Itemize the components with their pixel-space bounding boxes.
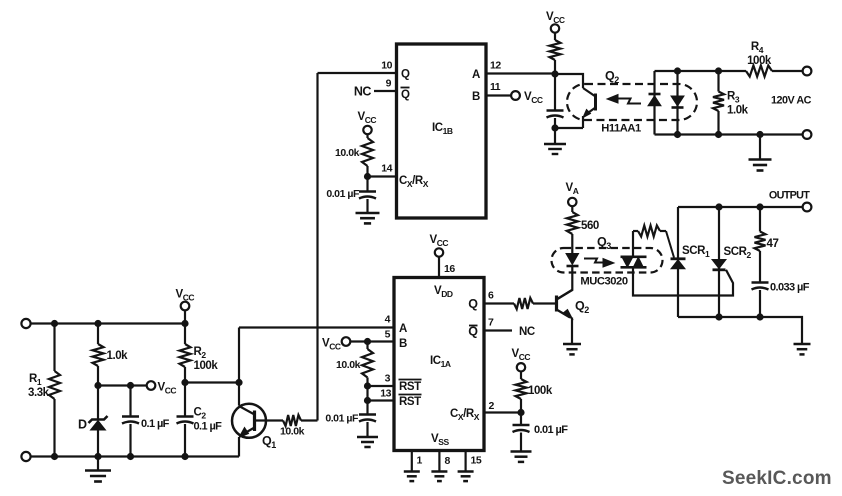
svg-text:RST: RST <box>399 396 421 408</box>
SCR2 <box>712 207 751 317</box>
VA terminal <box>566 182 579 206</box>
watermark SeekIC.com <box>722 468 832 489</box>
label MUC3020 <box>580 276 627 288</box>
capacitor C2 0.1 uF <box>177 383 223 457</box>
IC U1 IC1B monostable body <box>397 44 487 218</box>
svg-text:Q: Q <box>401 89 410 101</box>
svg-text:0.1 µF: 0.1 µF <box>141 418 170 430</box>
svg-text:0.01 µF: 0.01 µF <box>326 188 360 200</box>
node 47 top <box>756 203 763 210</box>
capacitor 0.033 uF <box>752 282 810 318</box>
IC1A pin 4 A wire from Q1 collector <box>239 314 394 328</box>
ground (phototransistor emitter) <box>544 128 566 154</box>
opto Q2 H11AA1 phototransistor <box>583 88 596 128</box>
label 120V AC <box>771 95 812 107</box>
triac (MUC3020 detector) <box>621 252 647 272</box>
ground (IC1B timing cap) <box>356 213 380 223</box>
IC1A pin 6 wire <box>484 290 514 304</box>
resistor 10.0k (RST pull-up) <box>336 342 373 387</box>
wire IC1B pin10 down to Q1 base resistor <box>316 73 318 421</box>
svg-text:VSS: VSS <box>431 433 449 447</box>
IC U2 IC1A monostable body <box>394 278 484 451</box>
svg-text:12: 12 <box>490 60 501 72</box>
svg-text:IC1A: IC1A <box>430 355 451 369</box>
svg-text:3: 3 <box>385 373 391 385</box>
node LED2 bottom <box>674 131 681 138</box>
svg-text:0.01 µF: 0.01 µF <box>325 413 359 425</box>
zener diode D <box>78 386 108 457</box>
svg-text:100k: 100k <box>747 55 772 67</box>
ground (Q2 emitter) <box>563 344 581 354</box>
ground (RST cap) <box>357 437 378 447</box>
Vcc terminal IC1A pin 16 <box>430 234 456 278</box>
resistor 1.0k <box>93 324 129 386</box>
node R3 top <box>715 67 722 74</box>
wire triac top to gate resistor <box>632 231 634 257</box>
node R2 top <box>181 320 188 327</box>
IC1A pin 5 B wire <box>350 329 394 342</box>
capacitor (across phototransistor) <box>547 74 564 128</box>
svg-text:Q1: Q1 <box>262 434 276 450</box>
svg-text:Q2: Q2 <box>605 69 619 85</box>
node SCR2 cathode <box>715 313 722 320</box>
resistor R1 3.3k <box>28 324 60 457</box>
svg-text:8: 8 <box>445 455 451 467</box>
node pin5/resistor junction <box>364 338 371 345</box>
svg-text:1.0k: 1.0k <box>107 350 129 362</box>
node snubber bottom <box>756 313 763 320</box>
IC1A pin 13 RST wire <box>368 388 395 401</box>
resistor 10.0k (Q1 base) <box>255 415 318 438</box>
resistor (SCR1 gate, unlabeled) <box>633 226 666 237</box>
svg-text:VCC: VCC <box>158 382 177 396</box>
IC1B pin 10 Q output wire to node <box>318 60 397 74</box>
capacitor 0.01 uF (pin2) <box>513 413 569 452</box>
resistor R4 100k <box>746 41 803 77</box>
transistor Q1 <box>232 383 276 457</box>
svg-text:VCC: VCC <box>322 338 341 352</box>
svg-text:B: B <box>399 338 407 350</box>
svg-text:7: 7 <box>488 317 494 329</box>
node collector junction <box>551 70 558 77</box>
svg-text:VCC: VCC <box>512 348 531 362</box>
svg-text:11: 11 <box>490 81 501 93</box>
svg-text:D: D <box>78 418 87 432</box>
svg-text:CX/RX: CX/RX <box>450 408 480 422</box>
opto package outline MUC3020 (dashed) <box>552 248 663 273</box>
svg-text:10.0k: 10.0k <box>335 147 360 159</box>
wire R2 bottom to Q1 collector <box>185 381 239 383</box>
svg-text:SCR1: SCR1 <box>682 245 710 259</box>
IC1A pin 15 ground stub <box>458 451 482 482</box>
label Q3 <box>597 235 611 251</box>
wire pin3 to pin13 <box>366 386 368 401</box>
resistor 100k (pin2) <box>516 372 553 413</box>
diode LED Q3 MUC3020 <box>566 254 579 267</box>
svg-text:16: 16 <box>444 263 455 275</box>
IC1B pin 12 A output wire <box>486 60 555 74</box>
IC1A pin 2 Cx/Rx wire <box>484 400 521 413</box>
svg-text:0.1 µF: 0.1 µF <box>194 421 223 433</box>
resistor 10.0k (IC1B timing) <box>335 134 373 176</box>
svg-text:R1: R1 <box>29 373 42 387</box>
opto package outline H11AA1 (dashed) <box>567 84 697 120</box>
svg-text:10.0k: 10.0k <box>280 426 305 438</box>
wire zener node to Vcc terminal <box>98 384 146 386</box>
svg-text:560: 560 <box>581 220 599 232</box>
label H11AA1 <box>601 123 641 135</box>
svg-text:1.0k: 1.0k <box>727 105 749 117</box>
capacitor 0.1 uF (zener node) <box>122 386 170 457</box>
wire Q2 emitter to ground <box>571 318 573 345</box>
resistor (Q2 base, unlabeled) <box>514 298 557 309</box>
Vcc terminal (pin2 pull-up) <box>512 348 531 371</box>
resistor (H11AA1 pull-up, unlabeled) <box>550 33 561 74</box>
svg-text:H11AA1: H11AA1 <box>601 123 641 135</box>
svg-text:0.01 µF: 0.01 µF <box>534 424 568 436</box>
node SCR2 anode <box>715 203 722 210</box>
ground (AC input) <box>749 135 772 171</box>
svg-text:Q: Q <box>468 297 478 311</box>
IC1B pin 14 Cx/Rx wire <box>368 163 397 177</box>
capacitor 0.01 uF (RST) <box>325 401 376 438</box>
svg-text:C2: C2 <box>194 407 207 421</box>
svg-text:VCC: VCC <box>358 111 377 125</box>
IC1A pin 7 NC stub <box>484 317 535 339</box>
terminal input top <box>21 319 30 328</box>
node C2 bottom <box>181 453 188 460</box>
svg-text:1: 1 <box>417 455 423 467</box>
node R1 bottom <box>51 453 58 460</box>
svg-text:CX/RX: CX/RX <box>399 175 429 189</box>
resistor R2 100k <box>180 324 219 383</box>
wire Q1 collector up to pin4 line <box>238 328 240 383</box>
svg-text:VCC: VCC <box>546 11 565 25</box>
terminal AC hot <box>803 67 812 76</box>
node emitter junction <box>551 124 558 131</box>
svg-text:Q3: Q3 <box>597 235 611 251</box>
svg-text:4: 4 <box>385 314 391 326</box>
wire node to phototransistor collector <box>555 74 583 88</box>
svg-text:IC1B: IC1B <box>432 122 453 136</box>
svg-text:VCC: VCC <box>524 91 543 105</box>
node R1 top <box>51 320 58 327</box>
wire triac bottom to SCR2 gate <box>633 267 733 295</box>
svg-text:10: 10 <box>381 60 392 72</box>
svg-text:A: A <box>472 69 480 81</box>
node zener top <box>94 382 101 389</box>
IC1B pin 9 NC stub <box>354 78 397 99</box>
wire output bottom rail <box>678 317 802 344</box>
Vcc terminal for IC1B timing resistor <box>358 111 377 134</box>
transistor Q2 <box>557 290 590 319</box>
node 0.1uF top <box>127 382 134 389</box>
diode LED1 H11AA1 (up) <box>648 71 661 135</box>
svg-text:NC: NC <box>519 326 535 338</box>
ground (output) <box>794 344 811 354</box>
resistor 47 <box>755 207 779 283</box>
IC1B pin 11 B input with Vcc terminal <box>486 81 543 105</box>
resistor 560 <box>567 206 599 253</box>
capacitor 0.01 uF (IC1B timing) <box>326 177 376 214</box>
node ground tap <box>756 131 763 138</box>
terminal OUTPUT <box>769 190 811 212</box>
svg-text:100k: 100k <box>528 385 553 397</box>
svg-text:5: 5 <box>385 329 391 341</box>
wire gate resistor to SCR1 gate <box>666 231 674 258</box>
node 1.0k top <box>94 320 101 327</box>
svg-text:Q: Q <box>468 325 478 339</box>
wire AC top rail <box>655 70 747 72</box>
label Q2 (H11AA1) <box>605 69 619 85</box>
svg-text:10.0k: 10.0k <box>336 359 361 371</box>
svg-text:R2: R2 <box>194 346 207 360</box>
node zener bottom <box>94 453 101 460</box>
svg-text:9: 9 <box>386 78 392 90</box>
terminal Vcc (zener node) <box>147 381 177 395</box>
diode LED2 H11AA1 (down) <box>671 71 684 135</box>
node LED2 top <box>674 67 681 74</box>
ground (input rail) <box>85 457 111 482</box>
svg-text:A: A <box>399 323 407 335</box>
node bottom LED rail <box>715 131 722 138</box>
svg-text:OUTPUT: OUTPUT <box>769 190 810 202</box>
light arrow (pointing right) <box>584 259 614 268</box>
IC1A pin 8 ground stub <box>431 451 450 482</box>
svg-text:NC: NC <box>354 85 372 99</box>
Vcc terminal at pin 5 <box>322 337 350 351</box>
svg-text:15: 15 <box>471 455 482 467</box>
svg-text:VCC: VCC <box>176 289 195 303</box>
wire emitter to node <box>555 127 583 129</box>
node pin 13 junction <box>364 397 371 404</box>
svg-text:14: 14 <box>381 163 392 175</box>
SCR1 <box>671 207 710 317</box>
svg-text:VDD: VDD <box>434 285 453 299</box>
svg-text:13: 13 <box>380 388 391 400</box>
svg-text:6: 6 <box>488 290 494 302</box>
svg-text:RST: RST <box>399 381 421 393</box>
Vcc terminal above R2 <box>176 289 195 324</box>
node R2 bottom <box>181 379 188 386</box>
svg-text:2: 2 <box>489 400 495 412</box>
svg-text:VA: VA <box>566 182 579 196</box>
svg-text:0.033 µF: 0.033 µF <box>770 282 810 294</box>
svg-text:100k: 100k <box>194 360 219 372</box>
svg-text:MUC3020: MUC3020 <box>580 276 627 288</box>
svg-text:120V AC: 120V AC <box>771 95 812 107</box>
ground (pin2 cap) <box>511 452 532 462</box>
terminal input bottom <box>21 452 30 461</box>
node pin 3 junction <box>364 382 371 389</box>
light arrow (pointing left) <box>607 95 641 104</box>
svg-text:R3: R3 <box>727 91 740 105</box>
svg-text:SCR2: SCR2 <box>724 246 752 260</box>
svg-text:SeekIC.com: SeekIC.com <box>722 468 832 489</box>
svg-text:Q: Q <box>401 69 410 81</box>
wire input bottom rail <box>31 455 239 457</box>
svg-text:Q2: Q2 <box>575 299 589 315</box>
wire input top rail <box>31 322 185 324</box>
node 0.1uF bottom <box>127 453 134 460</box>
wire Q2 collector to LED <box>557 266 573 300</box>
node IC1B pin14 junction <box>364 173 371 180</box>
svg-text:B: B <box>472 91 480 103</box>
Vcc terminal (H11AA1 collector pull-up) <box>546 11 565 33</box>
svg-text:3.3k: 3.3k <box>28 387 50 399</box>
IC1A pin 1 ground stub <box>404 451 423 482</box>
svg-text:47: 47 <box>767 238 779 250</box>
wire output top rail <box>678 206 803 208</box>
terminal AC neutral <box>803 130 812 139</box>
wire AC bottom rail <box>655 133 803 135</box>
node Q1 collector junction <box>235 379 242 386</box>
IC1A pin 3 RST wire <box>368 373 395 387</box>
svg-text:VCC: VCC <box>430 234 449 248</box>
node pin 2 junction <box>517 409 524 416</box>
svg-text:R4: R4 <box>751 41 764 55</box>
resistor R3 1.0k <box>713 71 749 135</box>
